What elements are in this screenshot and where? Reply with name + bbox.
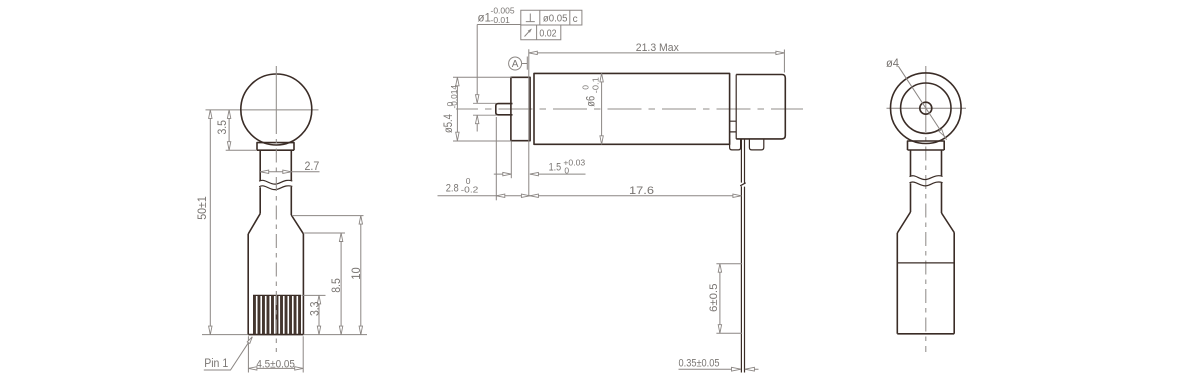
break symbol upper wave (left view) — [259, 180, 292, 184]
flare shoulders (left view) — [248, 214, 303, 234]
flare shoulders (right view) — [897, 212, 954, 233]
dimension 0.35±0.05 leader — [679, 368, 759, 370]
middle view centerline — [456, 108, 803, 110]
svg-text:10: 10 — [351, 267, 363, 280]
extension lines 4.5 — [248, 336, 303, 372]
body sides (left view) — [248, 234, 303, 335]
body seam line (right view) — [897, 262, 954, 264]
svg-text:0.35±0.05: 0.35±0.05 — [679, 357, 720, 369]
ball collar (left view) — [257, 143, 294, 151]
dimension ø5.4 text — [443, 85, 459, 133]
collar (right view) — [908, 141, 945, 150]
terminal tab 2 — [749, 139, 763, 150]
svg-text:A: A — [512, 59, 519, 70]
middle circle ø4 (right view) — [901, 83, 951, 133]
svg-text:0: 0 — [581, 85, 591, 90]
body bottom (right view) — [897, 333, 954, 335]
dimension 6±0.5 line — [719, 264, 721, 334]
outer ball circle (right view) — [891, 73, 962, 144]
lead wire — [741, 139, 744, 373]
runout symbol — [525, 29, 532, 36]
dimension 4.5±0.05 line — [248, 367, 303, 369]
motor body — [534, 73, 730, 144]
left view vertical centerline — [275, 66, 277, 120]
lead wire break tick — [740, 183, 746, 186]
shaft (ø1) — [496, 104, 513, 115]
perpendicularity symbol — [526, 14, 535, 22]
neck upper segment (left view) — [260, 150, 291, 180]
svg-text:17.6: 17.6 — [629, 185, 654, 197]
svg-text:1.5: 1.5 — [549, 162, 562, 174]
neck upper segment (right view) — [911, 150, 942, 176]
dimension 10 line — [360, 216, 362, 335]
body sides (right view) — [897, 233, 954, 334]
svg-text:4.5±0.05: 4.5±0.05 — [256, 358, 295, 370]
dimension 50±1 text — [197, 196, 209, 220]
dimension ø6 line — [601, 73, 603, 144]
svg-text:3.3: 3.3 — [310, 302, 322, 317]
extension line flange left for 1.5 — [510, 142, 512, 179]
front flange — [511, 77, 530, 140]
21.3 Max extension right — [783, 50, 785, 73]
datum tick — [526, 57, 528, 70]
bottom extension line — [202, 334, 367, 336]
extension line shaft tip — [495, 117, 497, 200]
dimension 50±1 line — [209, 110, 211, 335]
terminal tab 1 — [730, 139, 741, 150]
dimension 8.5 text — [331, 278, 343, 293]
svg-text:3.5: 3.5 — [217, 120, 229, 135]
ball (left view) — [241, 74, 312, 145]
ø4 leader — [898, 66, 946, 140]
datum extension line — [528, 49, 530, 196]
svg-text:-0.005: -0.005 — [491, 6, 515, 16]
svg-text:ø0.05: ø0.05 — [543, 14, 568, 25]
neck lower segment (right view) — [911, 183, 942, 213]
extension line ribs top right — [302, 294, 326, 296]
dimension ø5.4 line — [456, 77, 458, 140]
left view horizontal centerline and 50/3.5 top extension line — [206, 109, 319, 111]
body bottom edge (left view) — [248, 334, 303, 336]
svg-text:-0.2: -0.2 — [461, 185, 479, 195]
svg-text:2.8: 2.8 — [446, 182, 459, 194]
svg-text:ø4: ø4 — [886, 58, 900, 70]
neck lower segment (left view) — [260, 187, 291, 215]
extension line collar bottom — [226, 149, 257, 151]
svg-text:ø6: ø6 — [586, 96, 598, 107]
svg-text:8.5: 8.5 — [331, 278, 343, 293]
svg-text:0: 0 — [564, 165, 569, 175]
dimension 3.5 text — [217, 120, 229, 135]
svg-text:ø1: ø1 — [478, 13, 491, 25]
Pin 1 leader — [204, 337, 253, 370]
small center circle (right view) — [920, 102, 932, 114]
svg-text:2.7: 2.7 — [305, 161, 320, 173]
ø1 leader — [477, 25, 521, 132]
svg-text:21.3 Max: 21.3 Max — [636, 42, 679, 54]
feature control frame row 2 — [521, 25, 561, 40]
break upper wave (right view) — [910, 176, 943, 180]
ribs top edge (left view) — [253, 294, 301, 296]
dimension 10 text — [351, 267, 363, 280]
washer band right — [730, 75, 737, 139]
dimension 3.3 text — [310, 302, 322, 317]
dimension ø6 text — [581, 77, 601, 107]
extension line flare top right — [292, 215, 364, 217]
end cap — [736, 75, 785, 139]
ø5.4 extension lines — [453, 77, 512, 141]
right view vertical centerline — [925, 66, 927, 118]
dimension 21.3 Max line — [529, 52, 785, 54]
svg-text:6±0.5: 6±0.5 — [708, 284, 720, 313]
dimension 2.8 / 17.6 line — [438, 195, 742, 197]
break symbol lower wave (left view) — [259, 186, 292, 190]
extension line flare bottom right — [304, 232, 345, 234]
svg-text:c: c — [573, 14, 578, 25]
svg-text:-0.1: -0.1 — [591, 77, 601, 93]
shaft extension lines for ø1 — [473, 103, 497, 115]
extension lines 6±0.5 — [716, 264, 742, 334]
svg-text:-0.01: -0.01 — [491, 15, 511, 25]
dimension 1.5 line — [494, 173, 586, 175]
dimension 3.3 line — [318, 295, 320, 334]
datum A symbol — [509, 57, 522, 70]
dimension 8.5 line — [340, 233, 342, 335]
svg-text:Pin 1: Pin 1 — [204, 358, 228, 370]
svg-text:50±1: 50±1 — [197, 196, 209, 220]
dimension 2.7 line — [260, 171, 319, 173]
dimension 3.5 line — [228, 110, 230, 150]
feature control frame row 1 — [521, 10, 582, 25]
ribs / pins (left view) — [253, 296, 301, 334]
svg-text:0.02: 0.02 — [539, 28, 557, 39]
right view horizontal centerline — [887, 107, 967, 109]
dimension 6±0.5 text — [708, 284, 720, 313]
svg-text:ø5.4: ø5.4 — [443, 114, 455, 133]
break lower wave (right view) — [910, 182, 943, 186]
